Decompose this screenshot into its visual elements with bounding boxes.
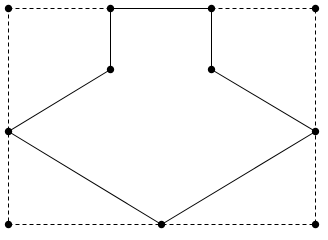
wire upper-left diagonal bbox=[9, 70, 111, 132]
node bottom middle bbox=[158, 221, 165, 228]
node top shoulder left bbox=[107, 5, 114, 12]
node left shoulder bbox=[107, 66, 114, 73]
node top shoulder right bbox=[208, 5, 215, 12]
wire left vertical bbox=[110, 9, 112, 70]
node bottom-right corner bbox=[312, 221, 319, 228]
wire lower-left diagonal bbox=[9, 132, 162, 225]
node bottom-left corner bbox=[5, 221, 12, 228]
node left middle bbox=[5, 128, 12, 135]
node top-left corner bbox=[5, 5, 12, 12]
wire top edge bbox=[111, 8, 212, 10]
node right shoulder bbox=[208, 66, 215, 73]
wire right vertical bbox=[211, 9, 213, 70]
node right middle bbox=[312, 128, 319, 135]
node top-right corner bbox=[312, 5, 319, 12]
wire upper-right diagonal bbox=[212, 70, 316, 132]
wire lower-right diagonal bbox=[162, 132, 316, 225]
